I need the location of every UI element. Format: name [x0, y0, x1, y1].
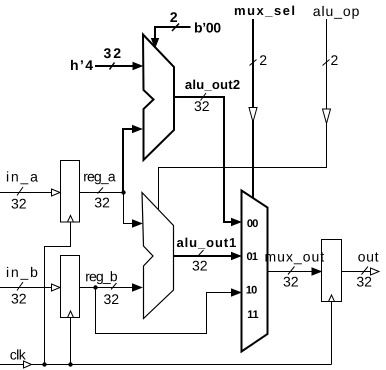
- wire clk: [0, 361, 332, 368]
- wire clk to reg_b: [70, 318, 72, 365]
- node mux_sel label: [235, 6, 294, 65]
- wire constant b'00 to ALU2 op: [152, 24, 191, 48]
- wire out: [342, 267, 380, 276]
- node alu_out1 label: [177, 238, 236, 271]
- junction clk reg_a: [42, 362, 46, 366]
- node mux_out label: [265, 252, 324, 286]
- junction reg_a node: [121, 190, 125, 194]
- wire mux_sel: [249, 19, 257, 198]
- node b'00 label: [170, 12, 220, 32]
- node mux input labels 00 01 10 11: [247, 219, 259, 318]
- register reg_a: [61, 161, 80, 223]
- wire reg_a to ALU1 input A: [124, 193, 142, 228]
- node in_a label: [7, 171, 38, 208]
- wire reg_b output to ALU1 input B: [80, 284, 142, 291]
- node alu_op label: [313, 6, 358, 65]
- wire alu_out1 to mux input 01: [174, 250, 241, 260]
- register out: [322, 240, 342, 302]
- node out label: [357, 252, 379, 286]
- wire alu_out2 to mux input 00: [174, 93, 241, 226]
- node h'4 label: [71, 48, 121, 70]
- junction reg_b node: [93, 285, 97, 289]
- wire constant h'4 to ALU2 input A: [95, 63, 142, 70]
- wire reg_b detour to mux input 10: [96, 288, 241, 334]
- wire clk to reg_a (jog around reg_b): [45, 222, 71, 365]
- ALU U2 (alu_out2): [143, 35, 174, 161]
- mux M1: [242, 191, 268, 352]
- node in_b label: [7, 267, 37, 304]
- node reg_a label: [84, 174, 116, 208]
- junction clk reg_b: [68, 362, 72, 366]
- wire alu_op to ALU1 op: [159, 19, 331, 209]
- wire in_b: [0, 282, 60, 291]
- wire reg_a output to junction: [80, 192, 124, 194]
- wire clk to output register: [331, 302, 333, 365]
- wire reg_a to ALU2 input B (bold bus up): [123, 126, 142, 193]
- node reg_b label: [86, 271, 118, 304]
- register reg_b: [61, 256, 80, 318]
- ALU U1 (alu_out1): [142, 193, 174, 319]
- wire mux_out to output register: [268, 267, 322, 276]
- wire in_a: [0, 187, 60, 196]
- node clk label: [10, 349, 25, 359]
- node alu_out2 label: [185, 80, 239, 112]
